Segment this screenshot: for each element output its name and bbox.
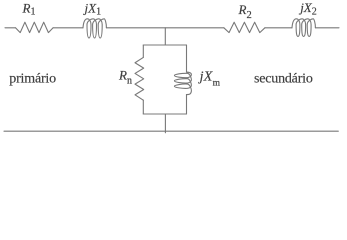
wire top-left lead (5, 27, 16, 29)
inductor jXm (174, 72, 191, 95)
resistor R2 (224, 22, 265, 32)
resistor Rn (135, 57, 144, 100)
svg-text:primário: primário (9, 71, 56, 86)
svg-text:R2: R2 (238, 2, 252, 21)
wire bottom rail (4, 130, 338, 132)
inductor jX1 (83, 19, 106, 38)
svg-text:R1: R1 (22, 0, 36, 17)
svg-text:jXm: jXm (198, 70, 221, 89)
svg-text:Rn: Rn (118, 68, 132, 87)
wire center stem down (164, 28, 166, 45)
wire left branch upper (142, 45, 144, 57)
wire bottom stem (164, 114, 166, 133)
wire R2 to jX2 (265, 27, 292, 29)
wire shunt bottom bar (143, 113, 186, 115)
inductor jX2 (292, 19, 315, 37)
wire shunt top bar (143, 44, 186, 46)
wire top-right lead (315, 27, 339, 29)
wire right branch upper (186, 45, 188, 72)
wire jX1 to R2 (through center node) (106, 27, 223, 29)
wire R1 to jX1 (53, 27, 83, 29)
svg-text:jX1: jX1 (83, 0, 102, 17)
svg-text:secundário: secundário (254, 72, 313, 87)
wire right branch lower (186, 95, 188, 114)
svg-text:jX2: jX2 (298, 0, 317, 18)
wire left branch lower (142, 100, 144, 114)
resistor R1 (16, 22, 54, 32)
